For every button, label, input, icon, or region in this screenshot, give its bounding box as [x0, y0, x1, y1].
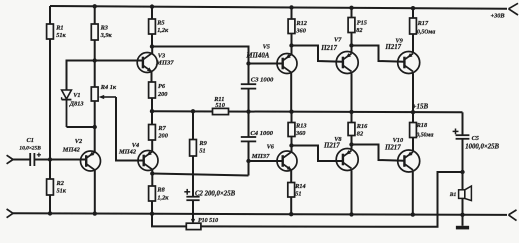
resistor R18: [410, 123, 417, 138]
wire R3 column: [94, 6, 96, 60]
label V4 designator: [132, 142, 139, 149]
transistor V4: [138, 151, 158, 171]
label R18 value: [416, 132, 433, 138]
resistor R10: [186, 223, 201, 229]
wiper R10 arrow: [191, 219, 195, 224]
svg-text:10,0×25В: 10,0×25В: [19, 146, 41, 152]
wire R8 to ground: [151, 201, 153, 214]
node V4 emitter: [150, 171, 154, 175]
resistor R6: [149, 82, 156, 98]
svg-text:R13: R13: [295, 123, 307, 130]
resistor R15: [348, 18, 355, 33]
svg-text:R12: R12: [295, 20, 307, 27]
svg-text:R9: R9: [198, 140, 207, 147]
wire V2 collector: [94, 127, 96, 152]
wire input to C1: [13, 159, 30, 161]
svg-text:Р15: Р15: [357, 20, 367, 27]
node R3/base wire: [93, 58, 97, 62]
label V8 value: [323, 142, 340, 149]
node V7 mid rail: [349, 110, 353, 114]
svg-text:C1: C1: [27, 137, 34, 144]
label +15V: [413, 103, 429, 111]
svg-text:V1: V1: [73, 92, 80, 99]
node R9 mid rail: [191, 109, 195, 113]
wiper R4 arrow: [99, 95, 116, 99]
wire R15 to V7 collector: [351, 33, 353, 54]
svg-text:3,9к: 3,9к: [100, 32, 113, 39]
wire R16 column: [351, 112, 353, 123]
label V4 value: [118, 148, 137, 155]
diode V1 Д813: [62, 90, 72, 127]
node R15 top rail: [349, 6, 353, 10]
wire C3 top lead: [248, 64, 250, 85]
wire V10 emitter: [412, 172, 414, 215]
label V1 designator: [73, 92, 80, 99]
svg-text:1000,0×25В: 1000,0×25В: [465, 143, 499, 150]
wire V3 emitter: [151, 71, 153, 82]
label V9 value: [384, 44, 401, 51]
label R7 value: [157, 133, 168, 140]
label R3 value: [100, 32, 113, 39]
node V2 emitter ground: [93, 211, 97, 215]
svg-text:R3: R3: [100, 24, 108, 31]
label R6 designator: [158, 83, 166, 90]
wire V3C to V5 base net: [152, 47, 249, 64]
label R15 value: [356, 27, 362, 34]
svg-text:82: 82: [357, 131, 363, 138]
label V9 designator: [395, 37, 403, 44]
label R1 designator: [55, 24, 63, 31]
wire R7 to V4: [151, 140, 153, 152]
transistor V8: [336, 149, 358, 171]
speaker B1: [459, 186, 472, 201]
svg-text:R18: R18: [416, 122, 428, 129]
svg-text:МП40А: МП40А: [245, 52, 269, 59]
node V5 collector: [289, 43, 293, 47]
label R17 designator: [417, 20, 429, 27]
node V5 base branch: [246, 61, 250, 65]
svg-text:51: 51: [295, 191, 301, 198]
label C1 value: [19, 146, 41, 152]
svg-text:51к: 51к: [56, 32, 66, 39]
label R10: [198, 218, 218, 224]
svg-text:V10: V10: [393, 137, 404, 144]
node V3 collector: [150, 44, 154, 48]
svg-text:R4 1к: R4 1к: [100, 84, 117, 91]
svg-text:С4 1000: С4 1000: [250, 130, 273, 137]
wire R12 to V5 collector: [291, 34, 293, 55]
wire R2 column: [49, 160, 51, 214]
label R5 value: [157, 27, 169, 34]
wire V2 emitter: [94, 170, 96, 214]
wire R15 column: [351, 8, 353, 18]
wire V4emitter to C4 branch: [152, 174, 248, 176]
svg-text:R16: R16: [356, 123, 368, 130]
wire V7 emitter: [351, 73, 353, 112]
node input/R1R2: [48, 157, 52, 161]
label C3: [251, 76, 274, 83]
label C5 value: [465, 143, 499, 150]
transistor V2: [81, 151, 101, 171]
node V7 collector: [349, 43, 353, 47]
label R1 value: [56, 32, 66, 39]
wire V6 emitter: [290, 170, 292, 183]
wire R13 to V6 collector: [291, 137, 293, 153]
svg-text:П217: П217: [323, 142, 340, 149]
wire C1 to V2 base: [34, 159, 86, 161]
wire top +30V rail: [50, 6, 507, 9]
transistor V7: [336, 52, 358, 74]
svg-text:R5: R5: [156, 20, 164, 27]
label R2 value: [57, 187, 67, 194]
svg-text:0,50ма: 0,50ма: [416, 132, 433, 138]
svg-text:С2 200,0×25В: С2 200,0×25В: [195, 191, 236, 198]
node V8 collector: [349, 142, 353, 146]
resistor R12: [288, 19, 295, 34]
wire C3 to mid rail: [248, 89, 250, 112]
wire R4 wiper to V4 base: [116, 97, 144, 161]
svg-text:1,2к: 1,2к: [157, 27, 169, 34]
wire bottom ground rail: [13, 213, 507, 215]
label B1: [449, 192, 457, 198]
svg-text:510: 510: [215, 102, 225, 109]
wire V7 to V9 base: [352, 46, 405, 62]
svg-text:V3: V3: [158, 52, 165, 59]
wire V5 emitter: [290, 73, 292, 112]
svg-text:МП37: МП37: [251, 153, 270, 160]
wire R10 right lead feedback: [201, 172, 463, 227]
wire middle output rail: [152, 111, 463, 112]
label R8 designator: [156, 187, 165, 194]
label V2 value: [62, 147, 81, 154]
svg-text:П217: П217: [384, 44, 401, 51]
label R9 designator: [198, 140, 207, 147]
svg-text:R14: R14: [294, 183, 306, 190]
wire V6 to V8 base: [292, 146, 344, 162]
node V9 mid rail: [411, 110, 415, 114]
label R18 designator: [416, 122, 428, 129]
wire C2 to R10 wiper: [192, 200, 194, 220]
resistor R5: [149, 19, 156, 34]
wire V8 emitter: [351, 170, 353, 214]
svg-text:V6: V6: [267, 144, 275, 151]
wire R5 column: [151, 7, 153, 47]
node R17 top rail: [411, 6, 415, 10]
capacitor C2: [184, 189, 199, 200]
label R14 value: [295, 191, 301, 198]
svg-text:П217: П217: [384, 145, 401, 152]
label V2 designator: [75, 138, 82, 145]
resistor R13: [288, 123, 295, 137]
label V10 value: [384, 145, 401, 152]
node V10 ground: [411, 212, 415, 216]
ground symbol: [456, 215, 469, 230]
transistor V5: [277, 54, 297, 74]
wire R18 column: [412, 112, 414, 122]
label R2 designator: [56, 180, 64, 187]
terminal +30V arrow: [509, 3, 519, 15]
node R12 top rail: [289, 5, 293, 9]
label V6 designator: [267, 144, 275, 151]
transistor V6: [277, 151, 297, 171]
label +30V: [491, 13, 505, 20]
wire R14 to ground: [290, 197, 292, 214]
svg-text:С3 1000: С3 1000: [251, 76, 274, 83]
node V5 mid rail: [289, 109, 293, 113]
label R4: [100, 84, 117, 91]
label R15 designator: [357, 20, 367, 27]
label V7 value: [320, 45, 337, 52]
wire V3 collector: [151, 47, 153, 55]
svg-text:0,5Ома: 0,5Ома: [417, 29, 435, 35]
resistor R11: [213, 108, 229, 114]
svg-text:1,2к: 1,2к: [157, 194, 169, 201]
wire R12 column: [291, 7, 293, 19]
svg-text:МП42: МП42: [118, 148, 137, 155]
wire V8 to V10 base: [352, 145, 405, 161]
svg-text:МП37: МП37: [155, 60, 174, 67]
svg-text:360: 360: [295, 130, 306, 137]
label R16 value: [357, 131, 363, 138]
svg-text:R17: R17: [417, 20, 429, 27]
svg-text:С5: С5: [472, 135, 479, 142]
label V10 designator: [393, 137, 404, 144]
wire V6 base: [249, 160, 283, 162]
node V1/R4/V2C: [93, 125, 97, 129]
svg-text:П217: П217: [320, 45, 337, 52]
svg-text:V7: V7: [334, 37, 342, 44]
svg-text:200: 200: [157, 91, 168, 98]
capacitor C5: [453, 129, 470, 139]
node V8 ground: [349, 212, 353, 216]
wire C5 to speaker: [462, 139, 464, 190]
transistor V10: [398, 150, 420, 172]
label R5 designator: [156, 20, 164, 27]
label R3 designator: [100, 24, 108, 31]
resistor R16: [348, 123, 355, 136]
wire R1 column: [49, 6, 51, 160]
wire V4 emitter: [151, 170, 153, 187]
label V5 value: [245, 52, 269, 59]
svg-text:R8: R8: [156, 187, 165, 194]
label R16 designator: [356, 123, 368, 130]
label C5 designator: [472, 135, 479, 142]
node speaker ground: [460, 213, 464, 217]
svg-text:51к: 51к: [57, 187, 67, 194]
label R11 designator: [213, 96, 224, 103]
label R13 designator: [295, 123, 307, 130]
wire R6 to R7: [151, 98, 153, 125]
resistor R7: [149, 125, 156, 141]
wire R17 to V9 collector: [412, 34, 414, 53]
wire R4 column: [94, 61, 96, 128]
capacitor C1: [30, 153, 41, 166]
node R2 ground: [48, 211, 52, 215]
capacitor C3: [241, 84, 256, 88]
node R3 top rail: [93, 4, 97, 8]
label R9 value: [199, 147, 205, 154]
node V6 collector: [289, 143, 293, 147]
label C1 designator: [27, 137, 34, 144]
wire V1 to R4 node: [67, 126, 95, 128]
label V1 value: [69, 101, 84, 108]
node R14 ground: [289, 212, 293, 216]
wire R9 column: [192, 111, 194, 156]
svg-text:200: 200: [157, 133, 168, 140]
wire R18 to V10 collector: [412, 138, 414, 152]
transistor V3: [137, 53, 157, 73]
resistor R2: [47, 179, 54, 195]
label V8 designator: [334, 136, 342, 143]
wire V9 emitter: [412, 73, 414, 112]
label R13 value: [295, 130, 306, 137]
resistor R8: [149, 186, 156, 201]
svg-text:V5: V5: [263, 43, 270, 50]
label R14 designator: [294, 183, 306, 190]
resistor R1: [47, 24, 54, 39]
svg-text:R1: R1: [55, 24, 63, 31]
wire R10 left lead: [152, 214, 186, 227]
transistor V9: [398, 52, 420, 74]
svg-text:82: 82: [356, 27, 362, 34]
label C4: [250, 130, 273, 137]
label V5 designator: [263, 43, 270, 50]
svg-text:51: 51: [199, 147, 205, 154]
wire R9 to C2: [192, 156, 194, 197]
svg-text:V2: V2: [75, 138, 82, 145]
label R12 designator: [295, 20, 307, 27]
svg-text:Р10 510: Р10 510: [198, 218, 218, 224]
svg-text:+15В: +15В: [413, 103, 429, 111]
resistor R14: [288, 183, 295, 198]
wire R17 column: [412, 8, 414, 18]
terminal output arrow: [509, 210, 517, 221]
svg-text:Р6: Р6: [158, 83, 166, 90]
svg-text:Д813: Д813: [69, 101, 84, 108]
resistor R3: [91, 24, 98, 40]
svg-text:R2: R2: [56, 180, 64, 187]
wire R16 to V8 collector: [351, 136, 353, 151]
wire V5 to V7 base: [292, 46, 344, 62]
label C2: [195, 191, 236, 198]
node R5 top rail: [150, 4, 154, 8]
node mid rail E: [150, 109, 154, 113]
node C3C4 mid rail: [246, 109, 250, 113]
resistor R17: [410, 18, 417, 34]
svg-text:МП42: МП42: [62, 147, 81, 154]
wire speaker to ground rail: [462, 198, 464, 214]
svg-text:360: 360: [295, 27, 306, 34]
terminal input upper arrow: [7, 155, 13, 164]
capacitor C4: [241, 137, 256, 141]
label V7 designator: [334, 37, 342, 44]
wire C4 to V6 base net: [248, 141, 250, 175]
svg-text:+30В: +30В: [491, 13, 505, 20]
wire C4 top lead: [248, 112, 250, 137]
wire R13 column: [291, 112, 293, 123]
node R8 ground: [150, 212, 154, 216]
label R12 value: [295, 27, 306, 34]
label R8 value: [157, 194, 169, 201]
label R17 value: [417, 29, 435, 35]
wire V5 base: [249, 63, 283, 65]
label R7 designator: [157, 125, 166, 132]
terminal input lower arrow: [7, 209, 13, 218]
resistor R4: [91, 87, 98, 101]
label V6 value: [251, 153, 270, 160]
wire mid rail to C5: [462, 112, 464, 135]
label V3 designator: [158, 52, 165, 59]
label R11 value: [215, 102, 225, 109]
svg-text:R7: R7: [157, 125, 166, 132]
resistor R9: [190, 140, 197, 157]
node feedback tap: [460, 170, 464, 174]
node V6 base branch: [246, 159, 250, 163]
wire V3 base net: [67, 61, 144, 91]
label R6 value: [157, 91, 168, 98]
svg-text:В1: В1: [449, 192, 457, 198]
label V3 value: [155, 60, 174, 67]
